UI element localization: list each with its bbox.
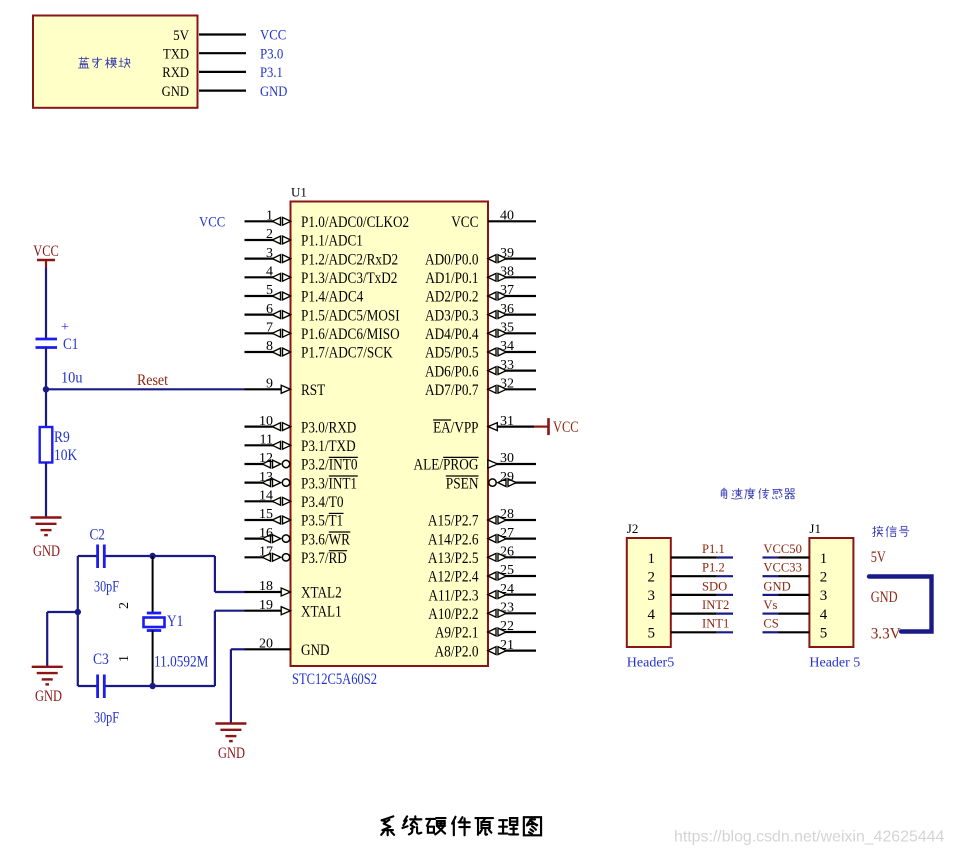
svg-text:A11/P2.3: A11/P2.3 xyxy=(428,587,478,604)
svg-text:5V: 5V xyxy=(871,549,886,566)
svg-text:Reset: Reset xyxy=(137,372,169,389)
U1 pin 23 wire xyxy=(505,612,536,614)
U1 pin 15 wire xyxy=(245,519,274,521)
wire C1 to R9 xyxy=(45,348,47,428)
svg-text:8: 8 xyxy=(266,339,273,354)
svg-text:26: 26 xyxy=(500,545,514,560)
svg-text:2: 2 xyxy=(648,570,656,586)
overline EA xyxy=(433,419,451,421)
U1 pin 2 wire xyxy=(245,239,274,241)
wire bluetooth VCC xyxy=(199,33,246,35)
svg-text:A10/P2.2: A10/P2.2 xyxy=(428,606,478,623)
overline INT1 xyxy=(329,475,358,477)
svg-text:28: 28 xyxy=(500,507,514,522)
svg-text:10K: 10K xyxy=(54,447,78,464)
svg-text:INT2: INT2 xyxy=(702,598,729,612)
svg-text:P1.6/ADC6/MISO: P1.6/ADC6/MISO xyxy=(301,326,400,343)
svg-text:33: 33 xyxy=(500,358,514,373)
svg-text:2: 2 xyxy=(117,602,132,609)
svg-text:VCC33: VCC33 xyxy=(763,561,802,575)
power symbol VCC (pin 31) xyxy=(534,426,548,428)
svg-text:24: 24 xyxy=(500,582,514,597)
U1 pin 8 wire xyxy=(245,351,274,353)
U1 pin 4 wire xyxy=(245,276,274,278)
U1 pin 24 wire xyxy=(505,593,536,595)
svg-text:C1: C1 xyxy=(63,336,78,353)
svg-text:STC12C5A60S2: STC12C5A60S2 xyxy=(292,671,377,688)
svg-text:GND: GND xyxy=(33,543,60,560)
svg-text:17: 17 xyxy=(259,545,273,560)
svg-text:AD2/P0.2: AD2/P0.2 xyxy=(425,289,478,306)
svg-text:4: 4 xyxy=(820,607,828,623)
svg-text:27: 27 xyxy=(500,526,514,541)
wire J2 pin 1 xyxy=(671,556,717,558)
svg-text:+: + xyxy=(61,320,69,335)
svg-text:25: 25 xyxy=(500,563,514,578)
svg-text:36: 36 xyxy=(500,302,514,317)
svg-text:15: 15 xyxy=(259,507,273,522)
svg-text:J1: J1 xyxy=(809,521,821,536)
svg-text:GND: GND xyxy=(763,579,790,593)
svg-text:P3.5/T1: P3.5/T1 xyxy=(301,513,343,530)
U1 pin 38 wire xyxy=(505,276,536,278)
wire bluetooth P3.0 xyxy=(199,52,246,54)
node crystal bottom junction xyxy=(149,683,155,689)
svg-text:P3.2/INT0: P3.2/INT0 xyxy=(301,457,358,474)
U1 pin 30 wire xyxy=(497,463,536,465)
node reset junction xyxy=(43,386,49,392)
svg-text:22: 22 xyxy=(500,619,514,634)
svg-text:4: 4 xyxy=(648,607,656,623)
legend bracket wire xyxy=(869,577,932,632)
svg-text:37: 37 xyxy=(500,283,514,298)
svg-text:5V: 5V xyxy=(173,27,189,44)
svg-text:U1: U1 xyxy=(291,185,307,200)
overline T1 xyxy=(329,512,344,514)
svg-text:AD3/P0.3: AD3/P0.3 xyxy=(425,307,479,324)
svg-text:11: 11 xyxy=(260,433,273,448)
svg-text:30pF: 30pF xyxy=(94,579,119,596)
overline RD xyxy=(329,550,347,552)
wire crystal vertical top xyxy=(152,556,154,614)
U1 pin 6 wire xyxy=(245,314,274,316)
U1 pin 3 wire xyxy=(245,258,274,260)
svg-text:C2: C2 xyxy=(90,527,105,544)
svg-text:AD6/P0.6: AD6/P0.6 xyxy=(425,363,479,380)
U1 pin 28 wire xyxy=(505,519,536,521)
svg-text:11.0592M: 11.0592M xyxy=(154,654,208,671)
U1 pin 29 wire xyxy=(489,479,496,486)
svg-text:5: 5 xyxy=(820,626,828,642)
svg-text:CS: CS xyxy=(763,617,778,631)
svg-text:5: 5 xyxy=(266,283,273,298)
overline PROG xyxy=(443,456,478,458)
U1 pin 26 wire xyxy=(505,556,536,558)
svg-text:3.3V: 3.3V xyxy=(871,626,902,643)
svg-text:Header 5: Header 5 xyxy=(809,656,860,671)
svg-text:P1.2: P1.2 xyxy=(702,561,725,575)
svg-text:18: 18 xyxy=(259,579,273,594)
svg-text:XTAL1: XTAL1 xyxy=(301,603,342,620)
wire crystal left vertical xyxy=(77,556,79,686)
wire XTAL1 xyxy=(214,611,216,686)
svg-text:1: 1 xyxy=(117,655,132,662)
svg-text:P1.1/ADC1: P1.1/ADC1 xyxy=(301,233,363,250)
U1 pin 5 wire xyxy=(245,295,274,297)
svg-text:VCC: VCC xyxy=(451,214,478,231)
capacitor C2 xyxy=(96,545,99,569)
wire J1 pin 3 xyxy=(779,594,810,596)
bluetooth module name 蓝牙模块 xyxy=(79,57,90,68)
U1 pin 21 wire xyxy=(505,649,536,651)
svg-text:GND: GND xyxy=(260,84,288,100)
U1 pin 14 wire xyxy=(245,500,274,502)
svg-text:30: 30 xyxy=(500,451,514,466)
wire GND pin 20 xyxy=(231,648,245,650)
U1 pin 16 wire xyxy=(245,537,264,539)
svg-text:P1.2/ADC2/RxD2: P1.2/ADC2/RxD2 xyxy=(301,251,398,268)
svg-text:1: 1 xyxy=(820,551,828,567)
svg-text:PSEN: PSEN xyxy=(446,475,479,492)
U1 pin 20 wire xyxy=(245,648,291,650)
svg-text:P1.7/ADC7/SCK: P1.7/ADC7/SCK xyxy=(301,345,393,362)
U1 pin 33 wire xyxy=(505,370,536,372)
U1 pin 18 wire xyxy=(245,591,283,593)
svg-text:R9: R9 xyxy=(54,429,70,446)
wire J1 pin 5 xyxy=(779,631,810,633)
svg-text:A15/P2.7: A15/P2.7 xyxy=(428,513,479,530)
svg-text:35: 35 xyxy=(500,321,514,336)
ground (pin 20) xyxy=(215,722,246,724)
bluetooth module box xyxy=(33,16,198,108)
svg-text:P3.0: P3.0 xyxy=(260,46,283,62)
wire J1 pin 1 xyxy=(779,556,810,558)
U1 pin 17 wire xyxy=(245,556,264,558)
svg-text:INT1: INT1 xyxy=(702,617,729,631)
svg-text:AD0/P0.0: AD0/P0.0 xyxy=(425,251,479,268)
svg-text:P3.6/WR: P3.6/WR xyxy=(301,531,350,548)
svg-text:P1.4/ADC4: P1.4/ADC4 xyxy=(301,289,363,306)
svg-text:12: 12 xyxy=(259,451,273,466)
U1 pin 10 wire xyxy=(245,426,274,428)
capacitor C1 (polarized) xyxy=(36,338,58,341)
svg-text:RST: RST xyxy=(301,382,325,399)
svg-text:VCC: VCC xyxy=(553,419,579,436)
U1 pin 36 wire xyxy=(505,314,536,316)
svg-text:19: 19 xyxy=(259,598,273,613)
U1 pin 27 wire xyxy=(505,537,536,539)
overline INT0 xyxy=(329,456,358,458)
wire J1 pin 2 xyxy=(779,575,810,577)
wire bluetooth GND xyxy=(199,89,246,91)
svg-text:38: 38 xyxy=(500,265,514,280)
svg-text:C3: C3 xyxy=(93,651,109,668)
ground (reset circuit) xyxy=(31,516,62,518)
U1 pin 1 wire xyxy=(245,220,274,222)
svg-text:P3.1/TXD: P3.1/TXD xyxy=(301,438,356,455)
svg-text:J2: J2 xyxy=(627,521,639,536)
svg-text:2: 2 xyxy=(266,227,273,242)
svg-text:16: 16 xyxy=(259,526,273,541)
svg-text:32: 32 xyxy=(500,377,514,392)
svg-text:A9/P2.1: A9/P2.1 xyxy=(435,625,479,642)
svg-text:7: 7 xyxy=(266,321,273,336)
svg-text:GND: GND xyxy=(35,688,62,705)
svg-text:3: 3 xyxy=(266,246,273,261)
svg-text:1: 1 xyxy=(648,551,656,567)
U1 pin 12 wire xyxy=(245,463,264,465)
U1 MCU body xyxy=(291,202,489,667)
wire R9 to GND xyxy=(45,463,47,518)
wire J2 pin 2 xyxy=(671,575,717,577)
U1 pin 9 wire xyxy=(245,388,283,390)
svg-text:XTAL2: XTAL2 xyxy=(301,585,342,602)
svg-text:VCC: VCC xyxy=(33,243,59,260)
svg-text:20: 20 xyxy=(259,637,273,652)
node crystal top junction xyxy=(149,553,155,559)
svg-text:AD5/P0.5: AD5/P0.5 xyxy=(425,345,479,362)
U1 pin 7 wire xyxy=(245,332,274,334)
svg-text:Header5: Header5 xyxy=(627,656,674,671)
U1 pin 32 wire xyxy=(505,388,536,390)
svg-text:GND: GND xyxy=(301,642,330,659)
U1 pin 25 wire xyxy=(505,575,536,577)
svg-text:9: 9 xyxy=(266,377,273,392)
node crystal left tap xyxy=(75,609,81,615)
svg-text:GND: GND xyxy=(218,745,245,762)
U1 pin 34 wire xyxy=(505,351,536,353)
U1 pin 11 wire xyxy=(245,444,274,446)
wire XTAL2 xyxy=(214,556,216,592)
wire J2 pin 3 xyxy=(671,594,717,596)
resistor R9 xyxy=(40,427,53,463)
wire J2 pin 4 xyxy=(671,612,717,614)
svg-text:GND: GND xyxy=(871,589,898,606)
svg-text:10u: 10u xyxy=(61,370,83,387)
svg-text:SDO: SDO xyxy=(702,579,727,593)
svg-text:4: 4 xyxy=(266,265,273,280)
crystal Y1 xyxy=(147,612,161,615)
svg-text:VCC: VCC xyxy=(260,28,286,44)
svg-text:3: 3 xyxy=(820,588,828,604)
capacitor C3 xyxy=(96,675,99,699)
svg-text:AD4/P0.4: AD4/P0.4 xyxy=(425,326,479,343)
svg-text:1: 1 xyxy=(266,209,273,224)
svg-text:5: 5 xyxy=(648,626,656,642)
svg-text:EA/VPP: EA/VPP xyxy=(433,419,479,436)
svg-text:P1.5/ADC5/MOSI: P1.5/ADC5/MOSI xyxy=(301,307,400,324)
connector J1 (Header 5) xyxy=(809,538,853,647)
svg-text:TXD: TXD xyxy=(163,46,189,63)
connector J2 (Header5) xyxy=(627,538,671,647)
svg-text:AD1/P0.1: AD1/P0.1 xyxy=(425,270,478,287)
svg-text:P1.1: P1.1 xyxy=(702,542,725,556)
svg-text:P1.3/ADC3/TxD2: P1.3/ADC3/TxD2 xyxy=(301,270,397,287)
legend label 接信号 xyxy=(873,526,883,537)
wire bluetooth P3.1 xyxy=(199,71,246,73)
svg-text:VCC50: VCC50 xyxy=(763,542,802,556)
svg-text:ALE/PROG: ALE/PROG xyxy=(414,457,479,474)
U1 pin 40 wire xyxy=(488,220,536,222)
svg-text:RXD: RXD xyxy=(162,64,189,81)
svg-text:A14/P2.6: A14/P2.6 xyxy=(428,531,479,548)
svg-text:34: 34 xyxy=(500,339,514,354)
wire J1 pin 4 xyxy=(779,612,810,614)
svg-text:40: 40 xyxy=(500,209,514,224)
svg-text:6: 6 xyxy=(266,302,273,317)
svg-text:2: 2 xyxy=(820,570,828,586)
svg-text:A12/P2.4: A12/P2.4 xyxy=(428,569,479,586)
svg-text:A8/P2.0: A8/P2.0 xyxy=(435,643,479,660)
svg-text:Y1: Y1 xyxy=(167,613,183,630)
svg-text:P1.0/ADC0/CLKO2: P1.0/ADC0/CLKO2 xyxy=(301,214,409,231)
wire Reset net xyxy=(46,388,245,390)
svg-text:GND: GND xyxy=(162,83,189,100)
wire crystal vertical bottom xyxy=(152,631,154,687)
svg-text:P3.4/T0: P3.4/T0 xyxy=(301,494,344,511)
title 系统硬件原理图 xyxy=(381,816,394,835)
svg-text:https://blog.csdn.net/weixin_4: https://blog.csdn.net/weixin_42625444 xyxy=(674,829,944,846)
svg-text:14: 14 xyxy=(259,489,273,504)
svg-text:21: 21 xyxy=(500,638,514,653)
overline WR xyxy=(329,531,351,533)
svg-text:10: 10 xyxy=(259,414,273,429)
U1 pin 31 wire xyxy=(496,426,534,428)
svg-text:Vs: Vs xyxy=(763,598,777,612)
wire crystal bottom xyxy=(78,685,97,687)
U1 pin 22 wire xyxy=(505,631,536,633)
svg-text:P3.1: P3.1 xyxy=(260,65,283,81)
U1 pin 35 wire xyxy=(505,332,536,334)
svg-text:P3.7/RD: P3.7/RD xyxy=(301,550,347,567)
svg-text:P3.3/INT1: P3.3/INT1 xyxy=(301,475,357,492)
wire crystal top xyxy=(78,555,97,557)
U1 pin 39 wire xyxy=(505,258,536,260)
U1 pin 37 wire xyxy=(505,295,536,297)
ground (crystal) xyxy=(32,666,63,668)
svg-text:39: 39 xyxy=(500,246,514,261)
wire tap to ground xyxy=(47,611,78,613)
svg-text:13: 13 xyxy=(259,470,273,485)
U1 pin 19 wire xyxy=(245,610,283,612)
overline PSEN xyxy=(446,475,479,477)
svg-text:23: 23 xyxy=(500,601,514,616)
svg-text:VCC: VCC xyxy=(199,214,225,231)
svg-text:30pF: 30pF xyxy=(94,710,119,727)
wire J2 pin 5 xyxy=(671,631,717,633)
svg-text:AD7/P0.7: AD7/P0.7 xyxy=(425,382,479,399)
svg-text:A13/P2.5: A13/P2.5 xyxy=(428,550,479,567)
svg-text:P3.0/RXD: P3.0/RXD xyxy=(301,419,356,436)
U1 pin 13 wire xyxy=(245,482,264,484)
svg-text:29: 29 xyxy=(500,470,514,485)
header section label 角速度传感器 xyxy=(721,488,727,499)
wire VCC to C1 xyxy=(45,268,47,338)
svg-text:31: 31 xyxy=(500,414,514,429)
svg-text:3: 3 xyxy=(648,588,656,604)
